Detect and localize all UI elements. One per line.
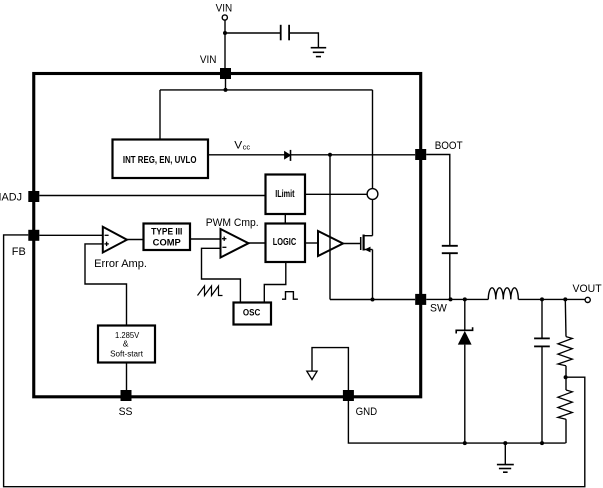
wire Vcc from INT REG to diode xyxy=(208,154,285,156)
block TYPE III COMP xyxy=(144,224,191,251)
wire ILimit to current sense xyxy=(305,193,367,195)
block INT REG, EN, UVLO xyxy=(113,140,209,179)
wire SW internal rail xyxy=(330,299,415,301)
resistor feedback top xyxy=(564,299,567,336)
junction VIN internal xyxy=(224,88,228,92)
svg-text:cc: cc xyxy=(243,143,251,152)
junction BOOT rail xyxy=(328,153,332,157)
wire VIN terminal to VIN pin xyxy=(224,20,226,68)
block LOGIC xyxy=(266,224,306,263)
wire VIN junction to input capacitor xyxy=(225,32,280,34)
ground input capacitor xyxy=(311,48,327,57)
wire IADJ pin to ILimit xyxy=(39,195,265,197)
junction feedback divider node xyxy=(564,375,568,379)
waveform pulse xyxy=(282,292,298,300)
node VOUT terminal xyxy=(585,297,590,302)
svg-text:PWM Cmp.: PWM Cmp. xyxy=(206,217,259,229)
pin SW xyxy=(415,294,426,305)
wire TYPE III COMP to PWM comparator xyxy=(190,238,221,240)
svg-text:OSC: OSC xyxy=(243,307,261,318)
svg-text:GND: GND xyxy=(356,406,378,418)
block OSC xyxy=(234,303,272,325)
pin IADJ xyxy=(28,191,39,202)
junction VIN top xyxy=(223,31,227,35)
buffer gate driver xyxy=(318,231,343,256)
transistor power MOSFET xyxy=(360,237,362,250)
wire FB pin to error amp inverting input xyxy=(39,234,103,236)
junction output capacitor top xyxy=(540,297,544,301)
junction output capacitor on ground rail xyxy=(540,441,544,445)
current sense circle xyxy=(367,189,378,200)
junction diode anode on ground rail xyxy=(463,441,467,445)
wire error amp output to TYPE III COMP xyxy=(127,239,144,241)
block 1.285V soft-start reference xyxy=(98,326,155,363)
resistor feedback bottom xyxy=(565,377,567,390)
pin SS xyxy=(121,390,132,401)
svg-text:&: & xyxy=(123,339,129,349)
wire OSC to LOGIC xyxy=(264,262,286,303)
junction divider top xyxy=(563,297,567,301)
wire reference to error amp non-inverting input xyxy=(85,244,127,326)
wire gate driver to MOSFET gate xyxy=(343,243,361,245)
wire inductor to VOUT xyxy=(518,298,585,300)
wire VIN rail to current sense xyxy=(372,90,374,189)
waveform sawtooth xyxy=(198,286,223,296)
junction diode cathode on SW xyxy=(463,297,467,301)
block ILimit xyxy=(266,175,306,215)
diode catch schottky xyxy=(464,299,466,330)
IC boundary xyxy=(34,74,421,397)
wire SW pin to inductor xyxy=(426,298,488,300)
svg-text:COMP: COMP xyxy=(153,238,181,248)
wire LOGIC to gate driver xyxy=(305,242,318,244)
svg-text:TYPE III: TYPE III xyxy=(151,226,182,236)
wire internal VIN rail xyxy=(160,89,373,91)
pin FB xyxy=(28,230,39,241)
wire feedback network to FB pin xyxy=(4,235,585,487)
wire input capacitor to ground xyxy=(289,33,318,48)
ground internal analog xyxy=(312,348,348,390)
wire BOOT rail down through driver to SW rail xyxy=(329,155,331,300)
wire diode to BOOT pin xyxy=(291,154,416,156)
wire GND pin to external ground rail xyxy=(348,401,565,443)
svg-text:VOUT: VOUT xyxy=(573,283,602,295)
svg-text:Soft-start: Soft-start xyxy=(110,348,144,358)
wire BOOT pin to bootstrap capacitor xyxy=(426,155,450,246)
capacitor input bypass xyxy=(280,25,282,41)
diode bootstrap xyxy=(285,152,291,159)
junction MOSFET source to SW rail xyxy=(371,298,375,302)
wire bootstrap capacitor to SW xyxy=(449,253,451,299)
wire OSC ramp to PWM comparator inverting input xyxy=(202,248,241,302)
pin GND xyxy=(343,390,354,401)
svg-text:VIN: VIN xyxy=(200,54,217,66)
svg-text:SW: SW xyxy=(430,303,447,315)
inductor output xyxy=(488,288,518,300)
junction bootstrap capacitor on SW xyxy=(449,297,453,301)
capacitor output xyxy=(541,299,543,338)
wire VIN pin to internal rail xyxy=(225,79,227,90)
junction ground symbol on ground rail xyxy=(503,441,507,445)
svg-text:IADJ: IADJ xyxy=(0,192,22,204)
pin BOOT xyxy=(415,149,426,160)
svg-text:LOGIC: LOGIC xyxy=(273,237,297,248)
node VIN input terminal xyxy=(222,15,227,20)
op-amp error amplifier xyxy=(103,227,127,253)
wire reference to SS pin xyxy=(126,363,128,391)
svg-text:INT REG, EN, UVLO: INT REG, EN, UVLO xyxy=(123,155,197,166)
svg-text:FB: FB xyxy=(12,246,26,258)
wire PWM comparator output to LOGIC xyxy=(249,242,266,244)
wire VIN rail to INT REG xyxy=(159,90,161,140)
svg-text:SS: SS xyxy=(119,406,133,418)
capacitor bootstrap xyxy=(442,245,458,247)
svg-text:BOOT: BOOT xyxy=(435,140,463,152)
ground power earth xyxy=(504,443,506,464)
wire ILimit to LOGIC xyxy=(284,214,286,224)
svg-text:Error Amp.: Error Amp. xyxy=(94,258,147,270)
pin VIN xyxy=(220,68,231,79)
svg-text:ILimit: ILimit xyxy=(275,189,295,200)
svg-text:VIN: VIN xyxy=(216,3,233,15)
